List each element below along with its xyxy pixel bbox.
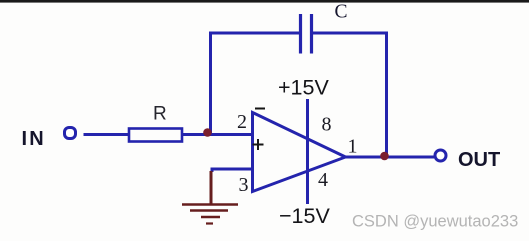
svg-text:−15V: −15V <box>279 204 330 228</box>
svg-text:OUT: OUT <box>458 149 500 171</box>
svg-text:C: C <box>335 2 348 23</box>
svg-text:CSDN @yuewutao233: CSDN @yuewutao233 <box>352 213 518 231</box>
svg-text:4: 4 <box>318 169 328 191</box>
svg-text:R: R <box>153 104 167 125</box>
svg-text:IN: IN <box>22 128 46 150</box>
svg-text:+15V: +15V <box>278 76 329 100</box>
svg-text:2: 2 <box>237 111 247 133</box>
svg-text:8: 8 <box>322 114 332 136</box>
svg-text:1: 1 <box>348 136 358 158</box>
svg-text:3: 3 <box>239 174 249 196</box>
